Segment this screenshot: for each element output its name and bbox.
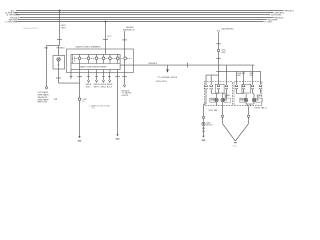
svg-text:B: WHT/GRN: B: WHT/GRN bbox=[7, 14, 20, 16]
pin cup 3 right block bbox=[251, 85, 253, 94]
svg-text:( DASH LIGHTS ): ( DASH LIGHTS ) bbox=[23, 27, 39, 30]
svg-text:1: 1 bbox=[63, 55, 64, 57]
svg-text:BLK 2: BLK 2 bbox=[86, 86, 91, 88]
connector tick C1 on wire 59.5 bbox=[58, 39, 62, 41]
wire bus line 2 WHT/RED bbox=[15, 12, 274, 14]
pin stub below bracket left edge bbox=[70, 70, 72, 80]
wire bus line 5 RED/WHT bbox=[18, 19, 267, 21]
bulb R (brake) right block bbox=[244, 98, 247, 101]
wire right block to V ground x=248.1 bbox=[248, 106, 250, 123]
svg-text:DASH LIGHTS BRIGHTNESS: DASH LIGHTS BRIGHTNESS bbox=[80, 66, 108, 69]
wire branch to right block y=70.8 bbox=[219, 71, 261, 85]
wire inside box bbox=[58, 61, 60, 69]
wire right branch into lamp box bbox=[58, 46, 60, 56]
pin drop x=102.8 with arrow bbox=[102, 70, 104, 81]
pin drop x=96 with arrow bbox=[96, 70, 98, 81]
ground G401 bar bbox=[202, 139, 206, 141]
svg-text:(1990-1991): (1990-1991) bbox=[156, 81, 167, 83]
label box right of bulb R2 bbox=[255, 98, 262, 102]
ground G402 mark bbox=[234, 142, 237, 144]
svg-text:RED: RED bbox=[237, 75, 241, 77]
connector tick on wire 58.5 bbox=[57, 77, 61, 79]
bulb bottom stubs left block bbox=[204, 102, 223, 106]
wire left block tail to V ground x=222.2 bbox=[222, 106, 224, 124]
terminal stub 6 bbox=[117, 54, 119, 63]
connector circle on V right bbox=[247, 115, 249, 117]
bulb L (brake) left block bbox=[215, 98, 218, 101]
drop to pin 2 of left block bbox=[210, 75, 212, 85]
connector tick on feed 124 bbox=[123, 39, 127, 41]
lamp assembly box (left component) bbox=[53, 56, 65, 70]
svg-text:DASH LIGHTS DIMMING: DASH LIGHTS DIMMING bbox=[76, 46, 101, 49]
wire drop from bus 1 at x=59.5 bbox=[59, 11, 61, 46]
svg-text:GRN 2: GRN 2 bbox=[101, 86, 107, 88]
pin cup 4 left block bbox=[225, 85, 227, 94]
long ground drop from bracket right edge x=117.2 bbox=[117, 70, 119, 135]
terminal circle 2 bbox=[87, 57, 90, 60]
wire right feed x=218.5 bbox=[218, 33, 220, 85]
junction dot on bus 6 bbox=[105, 21, 107, 23]
wire feed x=124 down to terminal 7 bbox=[124, 32, 126, 57]
svg-text:G402: G402 bbox=[233, 145, 237, 147]
bulb socket rect left block bbox=[215, 84, 224, 93]
wire bus line 1 WHT/BLU bbox=[16, 10, 284, 12]
V converge wires to ground G402 bbox=[223, 124, 249, 141]
bulb L1 (circle with X) bbox=[57, 58, 61, 62]
wire bus line 3 WHT/GRN bbox=[16, 14, 271, 16]
drop from tail wire to right block pin 3 bbox=[252, 65, 254, 85]
exit cup under right block bbox=[247, 104, 250, 106]
drop to right block pin 1 bbox=[236, 71, 238, 85]
dashed bus through terminals bbox=[72, 57, 132, 59]
svg-text:BLK: BLK bbox=[250, 75, 254, 77]
svg-text:BRAKE/: BRAKE/ bbox=[225, 94, 231, 97]
svg-text:BLU 2: BLU 2 bbox=[107, 86, 112, 88]
svg-text:LEFT TAIL: LEFT TAIL bbox=[209, 109, 218, 112]
wire from box bottom down bbox=[58, 69, 60, 83]
label box left of bulb R1 bbox=[240, 98, 246, 102]
pin cup 2 right block bbox=[242, 85, 244, 94]
wire out of dimmer to tail lights y=64.6 bbox=[120, 64, 254, 66]
svg-text:1 DASH LT SW 4 P (B): 1 DASH LT SW 4 P (B) bbox=[89, 104, 110, 107]
bulb R (tail) right block bbox=[252, 98, 255, 101]
svg-text:C: RED/GRN: C: RED/GRN bbox=[5, 21, 18, 23]
tick C on right feed bbox=[217, 43, 221, 45]
terminal stub 5 bbox=[109, 54, 111, 63]
wire feed from bus 6 to dimmer bbox=[105, 22, 107, 55]
svg-text:WHT/BLU: WHT/BLU bbox=[285, 10, 295, 12]
connector tick on tail wire bbox=[187, 63, 189, 67]
bulb bottom stub right block bbox=[246, 102, 254, 104]
branch arrow on wire at x=167.3 bbox=[167, 65, 169, 69]
tick on right feed y=57.8 bbox=[217, 57, 221, 59]
svg-text:(D): (D) bbox=[83, 101, 86, 103]
terminal stub 1 bbox=[79, 54, 81, 63]
terminal circle 5 bbox=[109, 57, 112, 60]
pin cup 1 right block bbox=[235, 85, 237, 94]
wire left branch down x=46.1 bbox=[46, 46, 48, 87]
svg-text:BRAKE: BRAKE bbox=[210, 98, 215, 101]
ground G403 bar bbox=[116, 138, 120, 140]
terminal stub 3 bbox=[96, 54, 98, 63]
svg-text:RED/BLK: RED/BLK bbox=[57, 48, 66, 50]
terminal circle 4 bbox=[102, 57, 105, 60]
terminal circle 7 (separate) bbox=[124, 57, 127, 60]
wire jog right to ground run bbox=[59, 82, 80, 84]
connector circle on right feed bbox=[217, 49, 219, 51]
svg-text:BRAKE/: BRAKE/ bbox=[257, 94, 263, 97]
ground G404 arrowhead bbox=[78, 136, 80, 138]
pin drop x=109 with arrow bbox=[109, 70, 112, 81]
inner terminal bracket bbox=[71, 54, 120, 69]
svg-text:21 W: 21 W bbox=[210, 101, 214, 103]
page continuation arrow (open) at x=124 bbox=[123, 29, 125, 32]
connector circle on left branch bbox=[45, 87, 47, 89]
tick on drop 245.8 bbox=[242, 72, 245, 74]
ground G403 arrowhead bbox=[116, 135, 118, 137]
terminal circle 6 bbox=[116, 57, 119, 60]
separator line of label strip bbox=[71, 63, 120, 65]
pin drop x=79 (ground run) bbox=[79, 64, 81, 73]
pin cup 2 left block bbox=[210, 85, 212, 94]
connector circle on V left bbox=[221, 115, 223, 117]
terminal stub 4 bbox=[103, 54, 105, 63]
ground eyelet G401 (double circle) bbox=[202, 122, 205, 125]
ground G404 bar bbox=[78, 140, 82, 142]
label box left of bulb L1 bbox=[210, 98, 216, 102]
svg-text:WHT 2: WHT 2 bbox=[94, 86, 100, 88]
tick on right feed y=70.8 bbox=[217, 70, 221, 72]
ground G401 arrowhead bbox=[202, 136, 204, 138]
tick on drop 79 bbox=[78, 76, 82, 78]
svg-text:/BLU: /BLU bbox=[61, 28, 66, 30]
connector tick on feed 105 bbox=[104, 39, 108, 41]
tick on long drop bbox=[116, 76, 120, 78]
bulb socket rect right block bbox=[242, 84, 251, 93]
internal wires right block bbox=[237, 94, 255, 99]
dimmer unit outer box U1 bbox=[67, 49, 134, 73]
svg-text:RIGHT TAILLT: RIGHT TAILLT bbox=[255, 107, 268, 110]
bulb L (tail) left block bbox=[221, 98, 224, 101]
tick on stub 70.5 bbox=[70, 76, 73, 78]
svg-text:GRN: GRN bbox=[221, 52, 226, 54]
page continuation arrow right feed bbox=[217, 31, 219, 34]
left taillight block (dashed) bbox=[205, 82, 233, 106]
wire bus line 6 RED/GRN bbox=[17, 21, 264, 23]
svg-text:(BODY): (BODY) bbox=[206, 125, 213, 127]
svg-text:R. GRN . .: R. GRN . . bbox=[265, 21, 275, 23]
wire left block to ground G401 x=203.4 bbox=[203, 106, 205, 136]
svg-text:RED/BLK: RED/BLK bbox=[149, 63, 158, 65]
drop from terminal 7 with arrow bbox=[124, 60, 126, 85]
svg-text:GRN/RED: GRN/RED bbox=[225, 29, 234, 31]
junction dot in box bbox=[58, 64, 60, 66]
svg-text:21 W: 21 W bbox=[240, 101, 244, 103]
svg-text:SEE PG 23: SEE PG 23 bbox=[38, 102, 48, 104]
terminal stub 2 bbox=[88, 54, 90, 63]
terminal stub 0 bbox=[71, 54, 73, 63]
svg-text:(FUSE 12): (FUSE 12) bbox=[126, 29, 135, 31]
svg-text:LIGHTS: LIGHTS bbox=[122, 95, 129, 97]
pin cup 3 left block bbox=[217, 85, 219, 94]
wire bridge split at y=44.9 bbox=[47, 45, 60, 47]
label box right of bulb L2 bbox=[224, 98, 231, 102]
terminal circle 1 bbox=[78, 57, 81, 60]
pin drop x=88 with arrow bbox=[88, 70, 90, 81]
wire branch to left block left pins y=74.6 bbox=[206, 75, 219, 85]
junction dot node A on bus 1 bbox=[59, 10, 61, 12]
drop from tail wire to left block pin 4 bbox=[226, 65, 228, 85]
svg-text:1992: 1992 bbox=[92, 108, 96, 110]
tick on ground wire bbox=[202, 127, 205, 129]
svg-text:WHT/GRN: WHT/GRN bbox=[271, 14, 281, 16]
svg-text:TO LICENSE LIGHTS: TO LICENSE LIGHTS bbox=[157, 77, 177, 79]
drop to right block pin 2 bbox=[243, 71, 245, 85]
connector circle small bbox=[202, 116, 204, 118]
connector circle on ground run bbox=[78, 98, 81, 101]
svg-text:C420: C420 bbox=[107, 36, 111, 38]
pin cup 4 right block bbox=[259, 85, 261, 94]
svg-text:BRAKE: BRAKE bbox=[240, 98, 245, 101]
pin cup 1 left block bbox=[205, 85, 207, 94]
terminal circle 3 bbox=[95, 57, 98, 60]
right taillight block (dashed) bbox=[234, 82, 262, 106]
internal wires left block bbox=[204, 94, 227, 104]
wire bus line 4 RED/BLK bbox=[20, 17, 274, 19]
